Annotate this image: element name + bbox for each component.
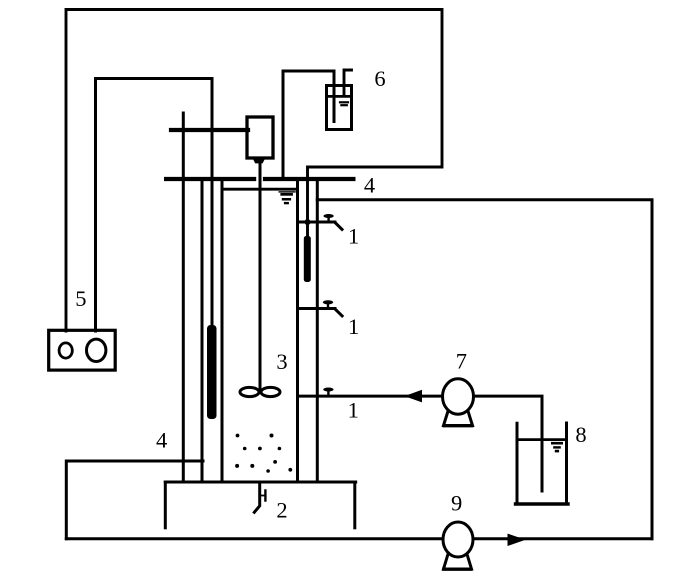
flask dip tube (333, 71, 336, 122)
pump U9 circle (443, 522, 473, 557)
side tube right wall (316, 181, 319, 482)
base stand top (165, 481, 355, 484)
base stand right leg (353, 482, 356, 528)
svg-text:7: 7 (456, 349, 467, 374)
reactor inner top (222, 188, 297, 191)
base stand left leg (164, 482, 167, 528)
svg-text:5: 5 (75, 286, 86, 311)
recirculation loop right (317, 200, 652, 539)
svg-text:1: 1 (348, 314, 359, 339)
flask cap line (327, 95, 352, 98)
tank top bar left segment (164, 177, 256, 181)
drain valve tick (261, 491, 265, 501)
svg-text:9: 9 (451, 491, 462, 516)
stand rod (182, 113, 185, 482)
flask U6 body (327, 86, 352, 130)
feed valve 1 bottom (323, 388, 333, 397)
wire controller-to-heater inner loop (96, 79, 213, 332)
pump U7 base (444, 410, 473, 426)
flask level marks (340, 102, 348, 105)
stirrer motor (247, 117, 273, 158)
valve 1 top handle (323, 214, 342, 229)
pump U9 base (444, 553, 472, 570)
reactor water level mark (279, 191, 296, 204)
junction dot at valve line crossing (305, 219, 311, 225)
flow arrow (right) after pump 9 (508, 534, 526, 546)
reactor right wall (296, 181, 299, 482)
drain tube 2 (254, 482, 259, 512)
svg-text:4: 4 (156, 428, 167, 453)
motor support bar (171, 128, 248, 132)
bath left wall (201, 181, 204, 482)
svg-text:6: 6 (374, 66, 385, 91)
wire controller-to-probe outer loop (66, 10, 442, 332)
reactor left wall (221, 181, 224, 482)
feed arrow (left) (405, 390, 423, 403)
controller small knob (59, 343, 72, 358)
sample valve line 1 middle (298, 307, 336, 310)
svg-text:1: 1 (348, 397, 359, 422)
sample valve line 1 top (298, 221, 336, 224)
stirrer shaft (259, 163, 262, 392)
svg-text:3: 3 (276, 349, 287, 374)
tank top bar right segment (263, 177, 356, 181)
flask outlet tube (344, 70, 352, 94)
propeller blades (240, 387, 280, 396)
svg-text:8: 8 (575, 422, 586, 447)
controller large knob (87, 339, 106, 361)
controller U5 box (49, 330, 116, 370)
svg-text:4: 4 (364, 173, 375, 198)
probe rod (right, in reactor side tube) (304, 236, 311, 282)
pipe pump7 to beaker 8 (474, 396, 542, 491)
bath drain to loop (66, 461, 203, 539)
valve 1 middle handle (323, 300, 342, 316)
beaker U8 (516, 423, 569, 504)
heater/thermometer rod (left, in bath) (207, 325, 217, 419)
svg-text:1: 1 (348, 224, 359, 249)
bottom recirculation line (66, 537, 652, 540)
pump U7 circle (443, 379, 474, 414)
feed line from pump 7 (298, 395, 443, 398)
beaker water level mark (551, 442, 563, 453)
wire to flask 6 (283, 71, 334, 177)
aeration bubbles (235, 434, 292, 473)
svg-text:2: 2 (276, 498, 287, 523)
motor coupling (253, 158, 266, 163)
